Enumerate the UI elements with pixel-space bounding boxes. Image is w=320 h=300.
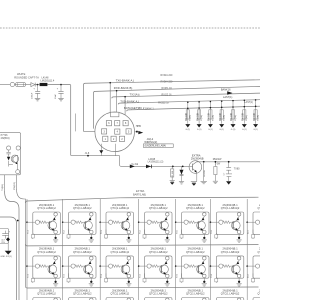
svg-text:G.(1): G.(1) (253, 129, 258, 131)
transistor driver cell Q10 (105, 256, 134, 286)
svg-text:G.(1): G.(1) (197, 129, 202, 131)
column wire bank2 col3 (99, 246, 101, 288)
resistor pull-up RP3 (209, 101, 211, 123)
column wire bank2 col5 (175, 246, 177, 288)
wire left bus inner curve (0, 217, 17, 300)
wire block output 1 down (4, 175, 6, 192)
node column tap 1 (26, 221, 28, 223)
svg-text:RX/P1 16: RX/P1 16 (162, 87, 173, 90)
node column tap 6 (210, 221, 212, 223)
svg-text:HPB: HPB (136, 125, 141, 128)
connector pin bottom C (16, 170, 20, 174)
transistor driver cell Q21 (252, 298, 281, 300)
arrow HPB (138, 131, 143, 134)
svg-text:G.(1): G.(1) (242, 129, 247, 131)
svg-text:RX/22 16: RX/22 16 (162, 94, 173, 97)
svg-text:QTC(1.LAB41)2: QTC(1.LAB41)2 (258, 293, 260, 296)
svg-text:R(1K): R(1K) (258, 115, 260, 121)
svg-text:25V: 25V (1, 242, 5, 244)
ground R2 (170, 180, 175, 182)
wire tap to cell input 4 (139, 221, 145, 223)
svg-text:R(1K): R(1K) (224, 115, 226, 121)
resistor pull-up RP7 (255, 100, 257, 124)
wire fuse to diode (26, 84, 31, 86)
wire Q0 collector (16, 154, 17, 156)
diode D1 (31, 83, 35, 87)
svg-text:QTC(1.LAB41)2: QTC(1.LAB41)2 (186, 251, 205, 254)
svg-text:BANK 1: BANK 1 (145, 108, 154, 111)
svg-text:RX 10K: RX 10K (209, 112, 211, 120)
resistor pull-up RP5 (232, 101, 234, 124)
svg-text:2N(3904)B: 2N(3904)B (191, 157, 204, 161)
ground C5 (226, 181, 231, 184)
svg-text:ROUNDED CAPT-7A: ROUNDED CAPT-7A (14, 75, 39, 79)
column wire bank3 col3 (99, 288, 101, 300)
column wire bank3 col5 (175, 288, 177, 300)
wire power input stub (0, 84, 10, 86)
svg-text:RXD/A 220: RXD/A 220 (161, 74, 173, 77)
svg-text:QTC(1.LAB41)2: QTC(1.LAB41)2 (37, 251, 56, 254)
wire net J1-8 horizontal (71, 155, 120, 157)
node base rail junction 2 (182, 166, 184, 168)
diode D4 in block (7, 157, 10, 161)
node RP3 tap on bank line (210, 107, 212, 109)
svg-text:RX 10K: RX 10K (231, 112, 233, 120)
node column tap 3 (99, 221, 101, 223)
svg-text:BANK16: BANK16 (221, 88, 231, 91)
svg-text:TXD-BANK A.): TXD-BANK A.) (120, 99, 139, 103)
svg-text:R(1K): R(1K) (190, 115, 192, 121)
transistor Q0 (11, 155, 18, 162)
wire tap to cell input 6 (211, 221, 217, 223)
transistor driver cell Q9 (67, 256, 96, 286)
connector J2 pin 8 (123, 121, 128, 126)
svg-text:BATA(GET)BK 2: BATA(GET)BK 2 (124, 106, 145, 110)
connector J2 pin 7 (115, 121, 120, 126)
svg-text:QTC(1.LAB41)2: QTC(1.LAB41)2 (221, 251, 240, 254)
resistor pull-up RP4 (221, 101, 223, 124)
column wire bank2 col7 (246, 246, 248, 288)
transistor driver cell Q1 (31, 212, 60, 242)
svg-text:RX 10K: RX 10K (186, 112, 188, 120)
connector J2 pin 1 (103, 136, 108, 141)
svg-text:R(1K): R(1K) (246, 115, 248, 121)
svg-text:(UNDERLINE.LAB4): (UNDERLINE.LAB4) (145, 145, 167, 148)
node RP7 tap on bank line (255, 106, 257, 108)
svg-text:QTC(1.LAB41)2: QTC(1.LAB41)2 (111, 207, 130, 210)
ground C8 (5, 251, 12, 255)
wire row1 feed line (26, 197, 259, 203)
node column tap 12 (175, 265, 177, 267)
connector J2 pin 5 (126, 129, 131, 134)
connector J2 pin 2 (111, 136, 116, 141)
svg-text:R 10K: R 10K (172, 170, 174, 176)
ground RP4 (219, 124, 224, 127)
svg-text:QTC(1.LAB41)2: QTC(1.LAB41)2 (258, 207, 260, 210)
svg-text:TX0-BANK A.): TX0-BANK A.) (116, 79, 135, 83)
node column tap 7 (246, 221, 248, 223)
transistor block Q0 box (0, 133, 21, 175)
transistor driver cell Q15 (31, 298, 60, 300)
node rail junction 2 (60, 84, 62, 86)
transistor driver cell Q2 (67, 212, 96, 242)
wire rail after L1 (47, 84, 70, 86)
svg-text:TX1: TX1 (28, 229, 30, 234)
wire DIN bottom pin2 down (115, 144, 117, 156)
wire C8 to ground (7, 241, 9, 250)
svg-text:QTC(1.LAB41)2: QTC(1.LAB41)2 (149, 251, 168, 254)
svg-text:G.(1): G.(1) (219, 129, 224, 131)
node column tap 14 (246, 265, 248, 267)
capacitor C1 (37, 85, 39, 92)
column wire bank2 col6 (210, 246, 212, 288)
svg-text:TX2(A)i.: TX2(A)i. (130, 92, 141, 96)
resistor pull-up RP6 (243, 100, 245, 124)
transistor driver cell Q11 (143, 256, 172, 286)
ground RP2 (197, 124, 202, 127)
wire DIN bottom pin1 down (100, 144, 102, 156)
wire tap to cell input 13 (211, 265, 217, 267)
svg-text:RX 10K: RX 10K (243, 112, 245, 120)
node collector junction (203, 161, 205, 163)
connector J2 keyway notch (111, 112, 119, 117)
wire tap to cell input 1 (27, 221, 33, 223)
wire tap to cell input 10 (100, 265, 106, 267)
column wire bank3 col4 (138, 288, 140, 300)
svg-text:2N(B04): 2N(B04) (1, 137, 10, 140)
svg-text:G.(1): G.(1) (186, 129, 191, 131)
node column tap 5 (175, 221, 177, 223)
node VIN junction (35, 84, 39, 86)
capacitor C6 in block (6, 151, 10, 153)
transistor driver cell Q4 (143, 212, 172, 242)
wire bus TXD BANK A (118, 100, 260, 105)
svg-text:G.(1): G.(1) (231, 129, 236, 131)
resistor pull-up RP1 (187, 102, 189, 124)
wire elbow down to base rail (120, 156, 190, 167)
column wire bank1 col4 (138, 199, 140, 246)
node column tap 11 (138, 265, 140, 267)
node column tap 2 (62, 221, 64, 223)
node RP4 tap on bank line (221, 107, 223, 109)
node J1-8 junction (87, 155, 89, 157)
svg-text:QTC(1.LAB41)2: QTC(1.LAB41)2 (149, 293, 168, 296)
connector pin right B (16, 146, 20, 150)
svg-text:1K/4W: 1K/4W (204, 169, 206, 176)
column wire bank2 col1 (26, 246, 28, 288)
wire tap to cell input 12 (176, 265, 182, 267)
transistor driver cell Q13 (215, 256, 244, 286)
ground RP6 (242, 124, 247, 127)
wire block output 2 down (16, 175, 18, 190)
wire Q9 emitter to ground (196, 172, 198, 181)
wire left bus outer curve (5, 192, 19, 300)
node column tap 4 (138, 221, 140, 223)
transistor driver cell Q6 (215, 212, 244, 242)
transistor Q9 (189, 161, 202, 174)
svg-text:TX(B1): TX(B1) (2, 184, 4, 191)
svg-text:RX 10K: RX 10K (254, 112, 256, 120)
svg-text:PW(R2): PW(R2) (14, 182, 16, 190)
transistor driver cell Q3 (105, 212, 134, 242)
ground RP5 (231, 124, 236, 127)
wire bus TX0 BANK A (84, 80, 261, 132)
transistor driver cell Q18 (143, 298, 172, 300)
arrow on base rail (130, 165, 135, 169)
connector J1 pin (10, 82, 14, 86)
wire tap to cell input 7 (247, 221, 253, 223)
arrow on bus line 3 (227, 91, 232, 94)
svg-text:TX80: TX80 (234, 167, 240, 170)
ground D3 (179, 181, 184, 183)
arrow DIN pin1 down (99, 150, 103, 153)
svg-text:RM22W: RM22W (213, 158, 222, 161)
svg-text:RX 10K: RX 10K (220, 112, 222, 120)
ground R3 (201, 180, 207, 182)
column wire bank3 col7 (246, 288, 248, 300)
node RP2 tap on bank line (198, 107, 200, 109)
svg-text:LAST(1): LAST(1) (244, 101, 253, 104)
resistor R2 to ground (171, 166, 173, 169)
svg-text:RX 10K: RX 10K (197, 112, 199, 120)
svg-text:LM(28)111.4: LM(28)111.4 (41, 79, 55, 82)
svg-text:R(1K): R(1K) (201, 115, 203, 121)
wire bus RXD OUT BANK2 (127, 106, 260, 111)
resistor R3 collector to ground (203, 162, 205, 181)
transistor driver cell Q7 (252, 212, 281, 242)
svg-text:QTC(1.LAB41)2: QTC(1.LAB41)2 (258, 251, 260, 254)
wire tap L3 to DIN pin8 (124, 97, 126, 121)
capacitor C5 (228, 162, 230, 168)
column wire bank3 col2 (62, 288, 64, 300)
svg-text:QTC(1.LAB41)2: QTC(1.LAB41)2 (149, 207, 168, 210)
wire DIN left pin feed (84, 130, 102, 132)
capacitor C8 (2, 233, 9, 235)
connector J2 pin 2 (119, 136, 124, 141)
ground R4 (213, 180, 218, 182)
ground C2 (58, 98, 64, 100)
capacitor block C8 box (0, 229, 9, 244)
svg-text:100uF: 100uF (32, 92, 34, 99)
svg-text:LAST(1): LAST(1) (223, 96, 232, 99)
svg-text:Ov-3td: Ov-3td (131, 163, 139, 166)
column wire bank3 col1 (26, 288, 28, 300)
svg-text:R(1K): R(1K) (235, 115, 237, 121)
wire tap L2 to DIN pin7 (116, 91, 118, 121)
svg-text:QTC(1.LAB41)2: QTC(1.LAB41)2 (221, 293, 240, 296)
svg-text:GND 3V/(1): GND 3V/(1) (0, 256, 12, 258)
column wire bank1 col2 (62, 199, 64, 246)
wire tap to cell input 14 (247, 265, 253, 267)
transistor driver cell Q12 (180, 256, 209, 286)
wire Q0 emitter junction (16, 162, 18, 164)
label J4 note underlined box (143, 144, 173, 148)
wire pin A down (8, 150, 10, 152)
column wire bank2 col4 (138, 246, 140, 288)
svg-text:10uF: 10uF (55, 93, 57, 99)
svg-text:QTC(1.LAB41)2: QTC(1.LAB41)2 (111, 293, 130, 296)
node RP6 tap on bank line (244, 106, 246, 108)
svg-text:QTC(1.LAB41)2: QTC(1.LAB41)2 (73, 251, 92, 254)
node C8 output junction (6, 237, 10, 241)
ground RP7 (253, 124, 258, 127)
wire tap to cell input 8 (27, 265, 33, 267)
ground C1 (35, 98, 41, 100)
svg-text:J1-8: J1-8 (85, 152, 90, 155)
connector pin left A (7, 146, 11, 150)
node HPB junction (136, 131, 138, 133)
svg-text:QTC(1.LAB41)2: QTC(1.LAB41)2 (37, 207, 56, 210)
wire tap to cell input 11 (139, 265, 145, 267)
node RP1 tap on bank line (187, 108, 189, 110)
wire row2 feed line (26, 244, 259, 246)
ground RP1 (185, 124, 190, 127)
transistor driver cell Q8 (31, 256, 60, 286)
node column tap 8 (26, 265, 28, 267)
svg-text:RX222 1n: RX222 1n (158, 101, 169, 104)
transistor driver cell Q17 (105, 298, 134, 300)
wire +5V feed down (70, 85, 72, 155)
column wire bank1 col5 (175, 199, 177, 246)
dashed page separator line (0, 27, 260, 29)
connector J2 pin 3 (102, 129, 107, 134)
column wire bank1 col3 (99, 199, 101, 246)
transistor driver cell Q5 (180, 212, 209, 242)
svg-text:QTC(1.LAB41)2: QTC(1.LAB41)2 (73, 293, 92, 296)
connector J2 pin 4 (115, 129, 120, 134)
transistor driver cell Q20 (215, 298, 244, 300)
node left bus junction (17, 220, 19, 222)
svg-text:RXD/A 220: RXD/A 220 (161, 80, 173, 83)
node RP5 tap on bank line (232, 106, 234, 108)
svg-text:RXD-BANK B): RXD-BANK B) (114, 86, 133, 90)
resistor pull-up RP2 (198, 102, 200, 124)
wire HPB from DIN right (135, 131, 138, 133)
inductor L1 (40, 83, 48, 86)
ground Q9 emitter (191, 181, 197, 183)
wire tap to cell input 2 (63, 221, 69, 223)
svg-text:G.(1): G.(1) (208, 129, 213, 131)
svg-text:L41(W)111.(2): L41(W)111.(2) (148, 161, 164, 164)
diode D3 to ground (181, 166, 183, 169)
svg-text:QTC(1.LAB41)2: QTC(1.LAB41)2 (186, 207, 205, 210)
column wire bank3 col6 (210, 288, 212, 300)
svg-text:WIRING(2): WIRING(2) (144, 140, 157, 144)
wire tap L1 to DIN pin6 (109, 83, 111, 121)
node column tap 13 (210, 265, 212, 267)
capacitor C2 (60, 85, 62, 92)
connector J2 pin 6 (106, 121, 111, 126)
svg-text:QTC(1.LAB41)2: QTC(1.LAB41)2 (221, 207, 240, 210)
wire bus TX2A (112, 93, 260, 98)
wire bus RXD BANK B (94, 86, 261, 128)
node base rail junction 1 (172, 166, 174, 168)
wire row3 feed line (27, 287, 258, 288)
column wire bank2 col2 (62, 246, 64, 288)
wire tap to cell input 3 (100, 221, 106, 223)
fuse F1 (15, 83, 25, 87)
column wire bank1 col7 (246, 199, 248, 246)
wire tap to cell input 5 (176, 221, 182, 223)
resistor R4 (214, 162, 216, 167)
node column tap 9 (62, 265, 64, 267)
transistor driver cell Q16 (67, 298, 96, 300)
transistor driver cell Q14 (252, 256, 281, 286)
wire spare feed to DIN left (74, 114, 76, 132)
wire J1 to fuse F1 (14, 84, 17, 86)
svg-text:R(1K): R(1K) (212, 115, 214, 121)
svg-text:QTC(1.LAB41)2: QTC(1.LAB41)2 (186, 293, 205, 296)
ground RP3 (208, 124, 213, 127)
column wire bank1 col6 (210, 199, 212, 246)
connector J2 DIN-8 body (95, 112, 135, 152)
column wire bank1 col1 (26, 199, 28, 246)
wire Q9 collector to output rail (197, 161, 260, 163)
wire row feed vertical (17, 190, 28, 289)
diode D2 on rail (146, 165, 151, 169)
svg-text:QTC(1.LAB41)2: QTC(1.LAB41)2 (73, 207, 92, 210)
wire tap to cell input 9 (63, 265, 69, 267)
transistor driver cell Q19 (180, 298, 209, 300)
svg-text:QTC(1.LAB41)2: QTC(1.LAB41)2 (111, 251, 130, 254)
svg-text:QTC(1.LAB41)2: QTC(1.LAB41)2 (37, 293, 56, 296)
svg-text:BART(LAB): BART(LAB) (133, 194, 146, 197)
node column tap 10 (99, 265, 101, 267)
svg-text:TX1: TX1 (28, 273, 30, 278)
